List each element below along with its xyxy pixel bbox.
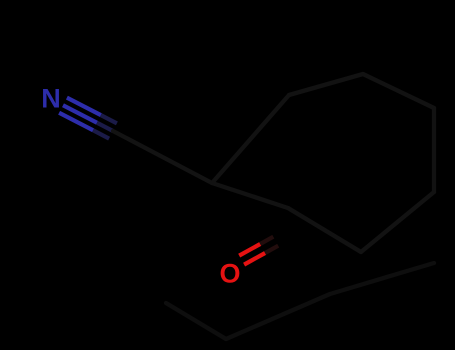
bond: C=O double-bond line 2 dark tip [265, 246, 278, 253]
svg-text:N: N [41, 84, 61, 114]
skeleton very dark bonds [113, 74, 434, 252]
bond: ring edge CH to top-left vertex [212, 95, 289, 183]
nitrile triple bond C#N : blue halves near N, dark navy halves near C [59, 98, 117, 139]
bond: nitrile C to ring CH [113, 131, 212, 183]
bond: ring edge bottom to carbonyl C [288, 208, 361, 252]
bond: C=O double-bond line 2 red half [244, 253, 265, 265]
svg-text:O: O [219, 259, 240, 289]
bond: ring edge bottom-right to bottom [361, 192, 434, 252]
bond: N#C triple-bond line 2 blue half [63, 105, 97, 123]
bond: lower zigzag segment 3 [330, 263, 434, 294]
bond: ring edge top to top-right [363, 74, 434, 108]
bond: ring edge right vertical [432, 108, 436, 192]
bond: lower zigzag segment 2 [226, 294, 330, 339]
bond: C=O double-bond line 1 red half [239, 244, 260, 256]
bond: N#C triple-bond line 1 blue half [67, 98, 101, 116]
bond: N#C triple-bond line 1 dark half [101, 115, 117, 123]
bond: N#C triple-bond line 3 blue half [59, 113, 93, 131]
bond: ring edge top-left to top [289, 74, 363, 95]
bond: lower zigzag segment 1 [166, 303, 226, 339]
bond: ring edge carbonyl C to CH [212, 183, 288, 208]
bond: N#C triple-bond line 3 dark half [93, 130, 109, 138]
bond: N#C triple-bond line 2 dark half [97, 123, 113, 131]
carbonyl C=O double bond : red halves near O, dark maroon tips [239, 237, 278, 265]
bond: C=O double-bond line 1 dark tip [260, 237, 273, 244]
